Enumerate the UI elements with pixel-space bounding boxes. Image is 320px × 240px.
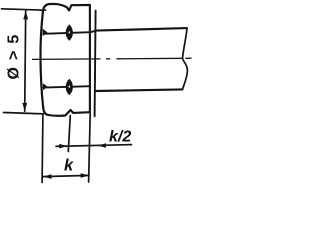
arrow down xyxy=(22,103,27,112)
k/2 right arrow xyxy=(98,143,106,148)
dimension k/2: dimension line xyxy=(56,145,132,147)
washer face line xyxy=(95,11,96,117)
bolt head top edge with chamfer notch xyxy=(43,4,90,12)
facet line bottom xyxy=(44,86,91,87)
chamfer lens bottom xyxy=(66,79,73,96)
bolt head right edge xyxy=(89,5,91,112)
k right arrow xyxy=(81,173,89,178)
shaft bottom edge xyxy=(96,89,183,91)
dimension Ø>5: dimension line xyxy=(25,11,26,111)
centerline xyxy=(32,58,101,61)
k/2 left arrow xyxy=(59,144,67,149)
facet line top xyxy=(44,31,96,34)
arrow up xyxy=(23,11,28,20)
svg-text:Ø > 5: Ø > 5 xyxy=(6,33,23,79)
dimension k: dimension line xyxy=(43,175,89,176)
facet junction triangle bottom xyxy=(43,83,48,90)
k left arrow xyxy=(43,174,51,179)
svg-text:k/2: k/2 xyxy=(109,129,131,146)
bolt head bottom edge with chamfer notch xyxy=(43,108,90,116)
dimension k: left extension line xyxy=(41,115,44,182)
svg-text:k: k xyxy=(64,157,74,175)
chamfer lens top xyxy=(66,24,73,41)
dimension Ø>5: top extension line xyxy=(2,9,46,10)
dimension k: right extension line xyxy=(89,114,91,183)
break line xyxy=(183,28,188,89)
dimension Ø>5: bottom extension line xyxy=(4,113,44,114)
bolt head left silhouette arc xyxy=(40,12,43,108)
dimension k/2: extension line xyxy=(68,116,70,152)
facet junction triangle top xyxy=(43,29,48,36)
shaft top edge xyxy=(96,28,187,31)
